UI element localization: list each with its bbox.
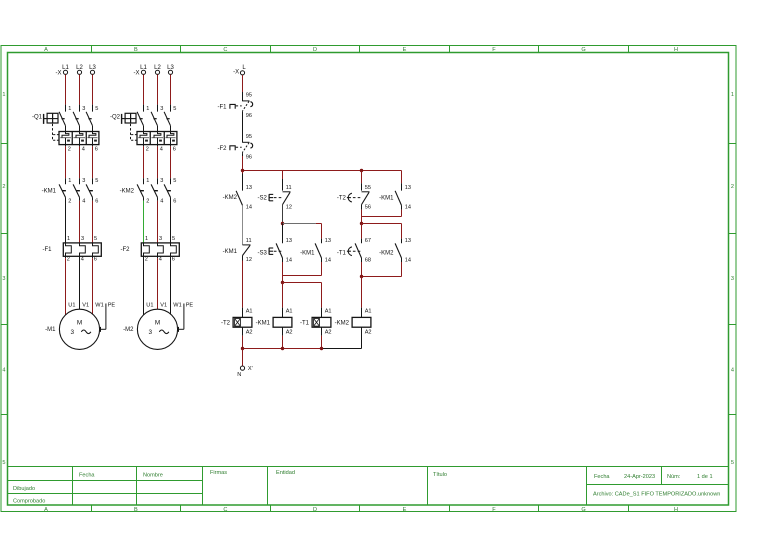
svg-text:L: L (242, 65, 246, 71)
column letters top (44, 47, 678, 53)
node S2-S3 (281, 222, 284, 225)
svg-text:F: F (492, 507, 496, 513)
svg-text:3: 3 (71, 329, 75, 336)
terminal -X' N (control) (237, 366, 252, 378)
svg-text:V1: V1 (160, 302, 167, 308)
motor terminals U1 V1 W1 PE (-M2) (146, 302, 193, 308)
pins 2 4 6 of -KM2 (146, 199, 176, 205)
svg-text:12: 12 (246, 257, 252, 263)
svg-text:96: 96 (246, 113, 252, 119)
node T2-KM1 (360, 222, 363, 225)
breaker -Q1 operator (44, 113, 58, 124)
column ruler ticks top (92, 46, 629, 53)
svg-text:2: 2 (731, 184, 734, 190)
wire -KM1 to -F1 pole 2 (79, 197, 81, 243)
svg-text:-KM2: -KM2 (223, 195, 238, 201)
wire S3-KM1 bottom bar (283, 275, 322, 277)
wire -KM2 to -F2 pole 1 (143, 197, 145, 243)
node KM1-T1 feed (281, 281, 284, 284)
breaker -Q2 trip unit box (137, 132, 177, 145)
svg-text:V1: V1 (82, 302, 89, 308)
motor -M1 (59, 309, 99, 349)
wire bus to N terminal (242, 349, 244, 367)
contact -KM1 11-12 (NC) (243, 245, 251, 256)
svg-text:-X: -X (134, 70, 140, 76)
wire -KM2 14 down (row2) (401, 258, 403, 277)
wire -F2 to -M2 pole 2 (157, 256, 159, 309)
row ruler ticks right (729, 144, 736, 415)
svg-text:5: 5 (173, 178, 176, 184)
contact -KM2 13-14 (NO) (236, 191, 242, 206)
node N-2 (281, 347, 284, 350)
breaker -Q1 pole 1-2 contact (59, 112, 65, 132)
svg-text:X': X' (248, 366, 253, 372)
thermal relay -F1 box (63, 243, 101, 256)
wire -Q1 to -KM1 pole 3 (92, 145, 94, 185)
svg-text:5: 5 (2, 460, 5, 466)
title block header labels (79, 470, 447, 478)
svg-text:D: D (313, 507, 317, 513)
svg-text:-KM1: -KM1 (256, 321, 271, 327)
svg-text:-M1: -M1 (45, 327, 56, 333)
motor terminals U1 V1 W1 PE (-M1) (68, 302, 115, 308)
svg-text:-F1: -F1 (218, 105, 228, 111)
wire L to -F1 (242, 75, 244, 101)
svg-text:5: 5 (95, 106, 98, 112)
thermal contact -F1 (95-96) (230, 101, 253, 112)
wire -Q1 to -KM1 pole 2 (79, 145, 81, 185)
svg-text:-KM1: -KM1 (379, 196, 394, 202)
contactor -KM1 pole 3-4 contact (73, 184, 80, 197)
wire S3 column to node2 (282, 276, 284, 283)
svg-text:PE: PE (108, 302, 116, 308)
svg-text:3: 3 (149, 329, 153, 336)
svg-text:95: 95 (246, 134, 252, 140)
svg-text:24-Apr-2023: 24-Apr-2023 (624, 474, 655, 480)
svg-text:-F1: -F1 (43, 247, 53, 253)
wire -Q2 to -KM2 pole 3 (170, 145, 172, 185)
svg-text:-Q2: -Q2 (110, 114, 121, 120)
svg-text:G: G (581, 47, 585, 53)
timer coil -T2 (233, 317, 252, 327)
svg-text:A2: A2 (286, 329, 293, 335)
svg-text:3: 3 (82, 178, 85, 184)
column ruler ticks bottom (92, 505, 629, 512)
svg-text:B: B (134, 507, 138, 513)
breaker -Q2 trip element pole 2 (151, 132, 163, 145)
svg-text:C: C (223, 47, 227, 53)
svg-text:5: 5 (95, 178, 98, 184)
breaker -Q1 pole 3-4 contact (73, 112, 79, 132)
svg-text:6: 6 (95, 199, 98, 205)
PE wire (-M1) (100, 304, 106, 332)
wire T1-KM2 bottom bar (362, 276, 402, 278)
pins 1 3 5 of -KM1 (68, 178, 98, 184)
breaker -Q1 pole 5-6 contact (86, 112, 92, 132)
wire bus to -KM2 contact (242, 171, 244, 191)
terminal -X L1 L2 L3 (circuit 1) (56, 65, 97, 76)
svg-text:1: 1 (731, 92, 734, 98)
svg-text:-T2: -T2 (221, 321, 231, 327)
thermal relay -F2 box (141, 243, 179, 256)
breaker -Q2 pole 3-4 contact (151, 112, 157, 132)
svg-text:14: 14 (405, 205, 411, 211)
svg-text:Núm:: Núm: (667, 474, 681, 480)
pins 1 3 5 of -KM2 (146, 178, 176, 184)
wire -KM1 14 down (row1) (401, 205, 403, 216)
svg-text:-KM1: -KM1 (42, 188, 57, 194)
contactor -KM2 pole 1-2 contact (137, 184, 144, 197)
svg-text:-KM2: -KM2 (379, 250, 394, 256)
svg-text:13: 13 (286, 238, 292, 244)
svg-text:14: 14 (405, 257, 411, 263)
thermal relay -F2 heater pole 2 (158, 243, 164, 256)
wire node2 to -KM1 coil (282, 283, 284, 318)
node KM2 coil feed (360, 275, 363, 278)
node bus-right (360, 169, 363, 172)
wire T2-KM1 bar (362, 216, 402, 218)
svg-text:5: 5 (172, 236, 175, 242)
svg-text:6: 6 (95, 146, 98, 152)
contactor coil -KM1 (273, 317, 292, 327)
svg-text:-F2: -F2 (218, 146, 228, 152)
pins 2 4 6 of -F1 (67, 257, 97, 263)
wire -F1 to -M1 pole 3 (92, 256, 94, 314)
wire -F1 to -M1 pole 1 (65, 256, 67, 314)
svg-text:Firmas: Firmas (210, 470, 227, 476)
svg-text:Comprobado: Comprobado (13, 499, 45, 505)
thermal contact -F2 (95-96) (230, 142, 253, 153)
svg-text:4: 4 (81, 257, 84, 263)
svg-text:3: 3 (2, 276, 5, 282)
svg-text:A: A (44, 47, 48, 53)
svg-text:6: 6 (94, 257, 97, 263)
contactor -KM2 pole 3-4 contact (151, 184, 158, 197)
svg-text:-S3: -S3 (258, 250, 268, 256)
wire -KM2 A2 down (361, 327, 363, 348)
border frame inner (8, 53, 729, 506)
svg-text:1: 1 (146, 178, 149, 184)
svg-text:-KM2: -KM2 (120, 188, 135, 194)
svg-text:67: 67 (365, 238, 371, 244)
svg-text:6: 6 (172, 257, 175, 263)
wire -F2 to -M2 pole 3 (170, 256, 172, 314)
svg-text:W1: W1 (173, 302, 181, 308)
svg-text:2: 2 (68, 146, 71, 152)
svg-text:2: 2 (146, 146, 149, 152)
thermal relay -F1 heater pole 3 (93, 243, 99, 256)
svg-text:4: 4 (2, 367, 5, 373)
svg-text:M: M (155, 319, 160, 326)
node bus-left (241, 169, 244, 172)
wire node4 to -KM2 coil (361, 277, 363, 318)
svg-text:1 de 1: 1 de 1 (697, 474, 713, 480)
svg-text:-T1: -T1 (337, 250, 347, 256)
svg-text:B: B (134, 47, 138, 53)
svg-text:Título: Título (433, 472, 447, 478)
svg-text:A1: A1 (365, 308, 372, 314)
svg-text:G: G (581, 507, 585, 513)
column letters bottom (44, 507, 678, 513)
svg-text:4: 4 (731, 367, 734, 373)
wire -F1 to -M1 pole 2 (79, 256, 81, 309)
pins 1 3 5 of -F1 (67, 236, 97, 242)
node N-3 (320, 347, 323, 350)
svg-text:56: 56 (365, 205, 371, 211)
svg-text:M: M (77, 319, 82, 326)
svg-text:95: 95 (246, 93, 252, 99)
timer contact -T1 67-68 (NO timed) (347, 243, 362, 258)
breaker -Q1 trip element pole 3 (87, 132, 97, 145)
svg-text:C: C (223, 507, 227, 513)
title block grid (8, 467, 729, 506)
pins 2 4 6 of -F2 (145, 257, 175, 263)
thermal relay -F2 heater pole 3 (171, 243, 177, 256)
wire -T2 56 down (361, 205, 363, 217)
svg-text:-T1: -T1 (300, 321, 310, 327)
svg-text:A: A (44, 507, 48, 513)
breaker -Q1 linkage (53, 124, 59, 142)
svg-text:3: 3 (731, 276, 734, 282)
wire L3 to -Q1 (circuit 1) (92, 75, 94, 112)
breaker -Q2 pole 5-6 contact (164, 112, 170, 132)
control bus L (243, 170, 402, 172)
svg-text:-KM1: -KM1 (300, 250, 315, 256)
breaker -Q1 trip element pole 1 (60, 132, 71, 145)
wire -KM1 14 down (latch) (321, 258, 323, 276)
svg-text:-KM1: -KM1 (223, 249, 238, 255)
contact -KM1 13-14 (NO latch) (315, 243, 321, 258)
wire -KM1 12 to -T2 coil (242, 256, 244, 318)
svg-text:A1: A1 (325, 308, 332, 314)
svg-text:3: 3 (160, 106, 163, 112)
contactor -KM1 pole 1-2 contact (59, 184, 66, 197)
wire -Q2 to -KM2 pole 2 (157, 145, 159, 185)
svg-text:4: 4 (82, 146, 85, 152)
svg-text:1: 1 (145, 236, 148, 242)
svg-text:U1: U1 (146, 302, 153, 308)
svg-text:-Q1: -Q1 (32, 114, 43, 120)
wire L2 to -Q1 (circuit 1) (79, 75, 81, 112)
svg-text:-X: -X (56, 70, 62, 76)
thermal relay -F1 heater pole 1 (66, 243, 72, 256)
svg-text:-M2: -M2 (123, 327, 134, 333)
wire node3 to -T1 contact (361, 224, 363, 244)
svg-text:1: 1 (68, 106, 71, 112)
svg-text:12: 12 (286, 205, 292, 211)
svg-text:H: H (674, 507, 678, 513)
svg-text:5: 5 (94, 236, 97, 242)
wire T2 column to node3 (361, 217, 363, 224)
wire -F1 to -F2 (242, 112, 244, 143)
svg-text:3: 3 (82, 106, 85, 112)
row ruler ticks left (1, 144, 8, 415)
svg-text:1: 1 (2, 92, 5, 98)
wire -T2 A2 down (242, 327, 244, 348)
svg-text:68: 68 (365, 257, 371, 263)
svg-text:H: H (674, 47, 678, 53)
svg-text:W1: W1 (95, 302, 103, 308)
wire -F2 to bus (242, 153, 244, 170)
node N-1 (241, 347, 244, 350)
wire -Q1 to -KM1 pole 1 (65, 145, 67, 185)
timer contact -T2 55-56 (NC timed) (347, 192, 370, 205)
contactor -KM2 pole 5-6 contact (164, 184, 171, 197)
motor -M2 (137, 309, 177, 349)
svg-text:U1: U1 (68, 302, 75, 308)
wire node3 to -KM2 13 branch (362, 224, 402, 244)
pins 1 3 5 of -Q2 (146, 106, 176, 112)
title block date fields (594, 474, 713, 480)
neutral bus N (243, 348, 362, 350)
svg-text:D: D (313, 47, 317, 53)
svg-text:-X: -X (233, 70, 239, 76)
svg-text:11: 11 (246, 238, 252, 244)
svg-text:14: 14 (286, 257, 292, 263)
contact -KM2 13-14 (NO row2) (395, 243, 401, 258)
svg-text:1: 1 (146, 106, 149, 112)
svg-text:-F2: -F2 (121, 247, 131, 253)
timer coil -T1 (312, 317, 331, 327)
breaker -Q1 trip unit box (59, 132, 99, 145)
wire L1 to -Q1 (circuit 1) (65, 75, 67, 112)
pins 1 3 5 of -Q1 (68, 106, 98, 112)
svg-text:2: 2 (146, 199, 149, 205)
svg-text:Archivo: CADe_S1 FIFO TEMPORIZ: Archivo: CADe_S1 FIFO TEMPORIZADO.unknow… (593, 492, 720, 498)
wire bus to -S2 (282, 171, 284, 191)
svg-text:Entidad: Entidad (276, 470, 295, 476)
wire node2 to -T1 coil (283, 283, 322, 318)
svg-text:-KM2: -KM2 (335, 321, 350, 327)
svg-text:3: 3 (159, 236, 162, 242)
wire bus to -T2 contact (361, 171, 363, 191)
pins 2 4 6 of -Q1 (68, 146, 98, 152)
svg-text:13: 13 (325, 238, 331, 244)
svg-text:4: 4 (82, 199, 85, 205)
wire -F2 to -M2 pole 1 (143, 256, 145, 314)
svg-text:A2: A2 (365, 329, 372, 335)
wire node to -S3 (282, 224, 284, 244)
wire -KM1 to -F1 pole 3 (92, 197, 94, 243)
svg-text:4: 4 (159, 257, 162, 263)
svg-text:E: E (403, 507, 407, 513)
svg-text:Nombre: Nombre (143, 473, 163, 479)
svg-text:Dibujado: Dibujado (13, 486, 35, 492)
thermal relay -F2 heater pole 1 (144, 243, 150, 256)
breaker -Q2 operator (122, 113, 136, 124)
pins 2 4 6 of -KM1 (68, 199, 98, 205)
svg-text:4: 4 (160, 146, 163, 152)
breaker -Q2 trip element pole 1 (138, 132, 149, 145)
row digits left (2, 92, 5, 466)
svg-text:3: 3 (81, 236, 84, 242)
svg-text:13: 13 (246, 185, 252, 191)
svg-text:-S2: -S2 (258, 196, 268, 202)
wire -KM2 to -F2 pole 3 (170, 197, 172, 243)
thermal relay -F1 heater pole 2 (80, 243, 86, 256)
svg-text:2: 2 (145, 257, 148, 263)
svg-text:N: N (237, 372, 241, 378)
svg-text:A1: A1 (286, 308, 293, 314)
wire -S3 14 down (282, 258, 284, 276)
breaker -Q2 trip element pole 3 (165, 132, 175, 145)
contactor coil -KM2 (352, 317, 371, 327)
svg-text:96: 96 (246, 154, 252, 160)
terminal -X L1 L2 L3 (circuit 2) (134, 65, 175, 76)
pushbutton -S3 13-14 (NO) (269, 243, 282, 258)
svg-text:3: 3 (160, 178, 163, 184)
svg-text:5: 5 (173, 106, 176, 112)
breaker -Q2 linkage (131, 124, 137, 142)
wire -KM1 to -F1 pole 1 (65, 197, 67, 243)
wire -KM2 to -F2 pole 2 (157, 197, 159, 243)
wire -S2 12 to node (282, 205, 284, 224)
svg-text:E: E (403, 47, 407, 53)
title block row labels (13, 486, 45, 505)
wire -KM1 A2 down (282, 327, 284, 348)
svg-text:6: 6 (173, 199, 176, 205)
wire L2 to -Q2 (circuit 2) (157, 75, 159, 112)
svg-text:Fecha: Fecha (79, 473, 95, 479)
svg-text:1: 1 (68, 178, 71, 184)
svg-text:A2: A2 (246, 329, 253, 335)
svg-text:Fecha: Fecha (594, 474, 610, 480)
contact -KM1 13-14 (NO row1) (395, 191, 401, 206)
wire -KM2 14 to -KM1 11 (242, 205, 244, 245)
svg-text:F: F (492, 47, 496, 53)
svg-text:2: 2 (67, 257, 70, 263)
svg-text:A2: A2 (325, 329, 332, 335)
wire -T1 A2 down (321, 327, 323, 348)
wire node to -KM1 13 branch (283, 224, 322, 244)
svg-text:13: 13 (405, 185, 411, 191)
svg-text:14: 14 (246, 205, 252, 211)
wire L1 to -Q2 (circuit 2) (143, 75, 145, 112)
svg-text:PE: PE (186, 302, 194, 308)
svg-text:11: 11 (286, 185, 292, 191)
svg-text:1: 1 (67, 236, 70, 242)
svg-text:13: 13 (405, 238, 411, 244)
terminal -X L (control) (233, 65, 246, 76)
row digits right (731, 92, 734, 466)
wire L3 to -Q2 (circuit 2) (170, 75, 172, 112)
wire -Q2 to -KM2 pole 1 (143, 145, 145, 185)
wire bus to -KM1 13 (seal) (401, 171, 403, 191)
svg-text:6: 6 (173, 146, 176, 152)
svg-text:5: 5 (731, 460, 734, 466)
pins 1 3 5 of -F2 (145, 236, 175, 242)
PE wire (-M2) (178, 304, 184, 332)
pins 2 4 6 of -Q2 (146, 146, 176, 152)
svg-text:2: 2 (2, 184, 5, 190)
breaker -Q2 pole 1-2 contact (137, 112, 143, 132)
contactor -KM1 pole 5-6 contact (86, 184, 93, 197)
svg-text:4: 4 (160, 199, 163, 205)
svg-text:14: 14 (325, 257, 331, 263)
svg-text:2: 2 (68, 199, 71, 205)
svg-text:-T2: -T2 (337, 196, 347, 202)
breaker -Q1 trip element pole 2 (73, 132, 85, 145)
svg-text:55: 55 (365, 185, 371, 191)
wire -T1 68 down (361, 258, 363, 277)
pushbutton -S2 11-12 (NC) (269, 192, 290, 205)
svg-text:A1: A1 (246, 308, 253, 314)
